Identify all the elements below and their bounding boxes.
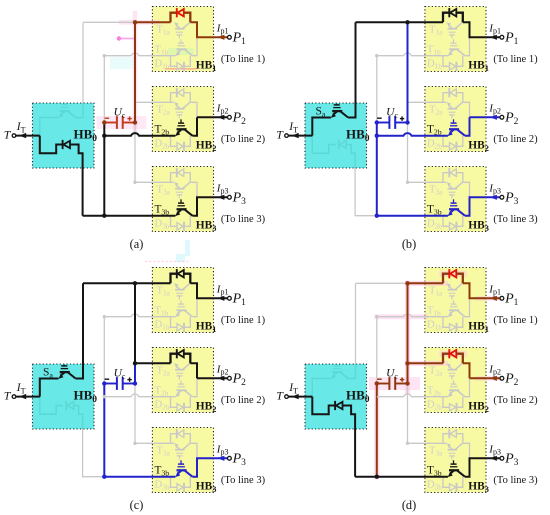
svg-text:Ip1: Ip1 — [488, 22, 501, 35]
arrow Ip1 — [490, 35, 497, 40]
wire mid rail to T2b — [104, 133, 175, 136]
highlight halo — [133, 13, 138, 132]
wire HB2 exit — [197, 116, 227, 118]
svg-text:(To line 2): (To line 2) — [221, 395, 266, 406]
label minus sign — [105, 117, 110, 119]
arrow Ip1 — [218, 35, 225, 40]
wire HB1 to exit — [463, 283, 500, 298]
wire HB0 diode branch — [312, 397, 335, 415]
transistor T2a (ghost) — [174, 102, 178, 107]
wire T3b to exit step — [465, 197, 500, 215]
node junction — [102, 214, 106, 218]
svg-text:P2: P2 — [232, 111, 247, 127]
terminal P3 — [500, 456, 504, 460]
diode D3a ghost arch — [443, 173, 449, 183]
highlight halo — [478, 296, 501, 301]
wire ghost upper rail to node A — [356, 282, 408, 284]
node junction — [133, 361, 137, 365]
terminal P3 — [228, 456, 232, 460]
wire ghost HB0 bottom to rail — [83, 429, 105, 477]
diode D2a arch (active) — [171, 354, 177, 364]
HB3 module box (b) — [425, 167, 486, 232]
svg-text:(To line 2): (To line 2) — [221, 134, 266, 145]
arrow IT direction — [292, 394, 299, 399]
svg-text:(To line 3): (To line 3) — [493, 214, 538, 225]
wire ghost Sa to HB0 top — [348, 364, 355, 379]
svg-text:T: T — [4, 128, 12, 142]
wire ghost T3a line in HB3 — [152, 181, 174, 183]
diode D2b ghost arch — [171, 397, 178, 408]
arrow Ip1 — [490, 296, 497, 301]
svg-text:P3: P3 — [504, 191, 519, 207]
highlight halo — [405, 283, 410, 392]
svg-text:(To line 1): (To line 1) — [221, 315, 266, 326]
wire ghost HB2 top to exit step — [463, 102, 470, 117]
svg-text:P2: P2 — [504, 111, 519, 127]
wire HB2 arch to exit — [463, 363, 470, 378]
arrow Ip3 — [218, 195, 225, 200]
svg-text:Ip3: Ip3 — [216, 182, 229, 195]
svg-text:Ip3: Ip3 — [488, 443, 501, 456]
svg-text:P3: P3 — [232, 191, 247, 207]
node junction — [375, 134, 379, 138]
wire C+ column segment — [407, 283, 409, 383]
diode D2a ghost arch — [171, 93, 177, 103]
transistor T2b (ghost) — [175, 392, 180, 397]
node junction — [405, 281, 409, 285]
terminal T — [12, 395, 16, 399]
diode D1b ghost arch — [443, 56, 450, 67]
arrow Ip2 — [218, 115, 225, 120]
svg-text:(To line 1): (To line 1) — [493, 315, 538, 326]
transistor T1a (ghost) — [447, 22, 451, 27]
transistor T1a (ghost) — [447, 283, 451, 288]
capacitor Uc — [377, 116, 408, 129]
svg-text:P3: P3 — [504, 452, 519, 468]
node junction — [405, 120, 409, 124]
transistor T1b (ghost) — [448, 312, 453, 317]
transistor T3b — [175, 472, 180, 477]
HB0 module box (b) — [305, 103, 367, 168]
node junction — [405, 361, 409, 365]
diode D1b ghost arch — [443, 317, 450, 328]
highlight halo — [478, 376, 501, 381]
svg-text:(To line 2): (To line 2) — [493, 134, 538, 145]
transistor T2b — [175, 131, 180, 136]
terminal P1 — [500, 296, 504, 300]
capacitor Uc — [377, 377, 408, 390]
svg-text:P2: P2 — [232, 372, 247, 388]
wire HB2 arch to exit — [190, 363, 197, 378]
wire ghost T2b to exit step — [465, 378, 470, 396]
wire HB0 diode to bottom exit — [70, 145, 83, 216]
wire ghost T1b to exit step — [192, 298, 197, 316]
wire ghost C- column upper segment — [103, 56, 105, 123]
svg-text:Ip1: Ip1 — [216, 283, 229, 296]
svg-text:(d): (d) — [402, 498, 416, 512]
terminal P2 — [500, 115, 504, 119]
arrow Ip3 — [490, 195, 497, 200]
svg-text:T: T — [4, 389, 12, 403]
label plus sign — [127, 377, 131, 381]
diode D1b ghost arch — [171, 317, 178, 328]
wire T3b to exit step — [465, 458, 500, 476]
capacitor Uc — [104, 116, 135, 129]
wire C- column — [376, 123, 378, 216]
svg-text:Uc: Uc — [386, 368, 398, 381]
wire ghost T1b feed rail — [104, 53, 175, 56]
wire HB2 exit — [470, 377, 500, 379]
wire ghost T1b feed rail — [377, 314, 448, 317]
wire ghost T1b to exit step — [465, 37, 470, 55]
svg-text:P1: P1 — [232, 31, 247, 47]
capacitor Uc — [104, 377, 135, 390]
wire mid rail to T2b — [377, 133, 448, 136]
terminal P2 — [500, 376, 504, 380]
svg-text:IT: IT — [288, 121, 298, 134]
diode D0 (ghost) — [339, 140, 346, 149]
svg-text:P2: P2 — [504, 372, 519, 388]
wire bottom rail to T3b — [377, 215, 448, 217]
node ghost junction at C- column top — [103, 54, 106, 57]
svg-text:Ip3: Ip3 — [216, 443, 229, 456]
wire ghost C- column upper segment — [376, 317, 378, 384]
HB2 module box (b) — [425, 87, 486, 152]
terminal P3 — [500, 195, 504, 199]
svg-text:(a): (a) — [130, 237, 144, 251]
wire bottom rail to T3b — [104, 476, 175, 478]
wire ghost T2b to exit step — [192, 378, 197, 396]
node ghost junction HB3 feed corner — [133, 442, 136, 445]
node junction — [102, 381, 106, 385]
transistor T1a (ghost) — [174, 283, 178, 288]
svg-text:Ip2: Ip2 — [216, 102, 229, 115]
diode D1a arch (active) — [171, 274, 177, 284]
diode D2a arch (active) — [443, 354, 449, 364]
svg-text:Ip2: Ip2 — [488, 363, 501, 376]
label plus sign — [400, 377, 404, 381]
diode D3b ghost arch — [171, 477, 178, 488]
highlight halo — [145, 261, 190, 263]
svg-text:Ip1: Ip1 — [216, 22, 229, 35]
diode D1a arch (active) — [171, 13, 177, 23]
wire ghost T1b feed rail — [104, 314, 175, 317]
svg-text:(To line 2): (To line 2) — [493, 395, 538, 406]
wire T input — [288, 396, 312, 398]
node junction — [375, 120, 379, 124]
highlight halo — [119, 38, 134, 40]
wire top rail into HB1 — [408, 21, 444, 23]
wire ghost diode branch in HB0 — [312, 136, 335, 154]
wire T2b to exit step — [465, 117, 470, 135]
terminal T — [12, 134, 16, 138]
wire HB0 diode branch — [40, 136, 63, 154]
highlight halo — [176, 254, 185, 262]
wire ghost T1b to exit step — [192, 37, 197, 55]
node junction — [102, 134, 106, 138]
wire Sa to HB0 top exit — [348, 22, 355, 117]
diode D1a arch (active) — [443, 274, 449, 284]
svg-text:Uc: Uc — [114, 368, 126, 381]
wire T3b to exit step — [192, 458, 227, 476]
terminal P1 — [500, 35, 504, 39]
svg-text:(To line 3): (To line 3) — [221, 214, 266, 225]
wire bottom rail to T3b — [104, 215, 175, 217]
diode D2a ghost arch — [443, 93, 449, 103]
terminal T — [285, 395, 289, 399]
arrow Ip3 — [490, 456, 497, 461]
highlight halo — [443, 351, 464, 357]
arrow IT direction — [19, 133, 26, 138]
node junction — [133, 381, 137, 385]
wire ghost T3a line in HB3 — [425, 442, 447, 444]
wire HB1 to exit — [190, 22, 227, 37]
wire ghost HB2 top feed — [408, 101, 425, 103]
diode D1a arch (active) — [443, 13, 449, 23]
wire ghost diode branch to HB0 bottom — [346, 145, 355, 169]
highlight halo — [168, 48, 194, 55]
arrow IT direction — [19, 394, 26, 399]
node ghost junction HB3 feed corner — [406, 442, 409, 445]
node junction — [375, 381, 379, 385]
wire HB1 to exit — [190, 283, 227, 298]
transistor T2a (ghost) — [447, 102, 451, 107]
node junction — [133, 281, 137, 285]
diode D3b ghost arch — [443, 216, 450, 227]
wire ghost HB0 bottom to rail — [355, 168, 377, 216]
transistor T1b (ghost) — [175, 312, 180, 317]
wire bottom rail to T3b — [377, 476, 448, 478]
highlight halo — [103, 116, 140, 129]
node junction — [375, 475, 379, 479]
svg-text:T: T — [276, 389, 284, 403]
wire ghost Sa branch in HB0 — [40, 118, 59, 136]
node ghost junction at C- column top — [103, 315, 106, 318]
HB3 module box (a) — [152, 167, 213, 232]
diode D3a ghost arch — [171, 173, 177, 183]
wire top rail from HB0 — [356, 21, 408, 23]
label minus sign — [377, 378, 382, 380]
wire ghost HB3 top to exit step — [463, 443, 470, 458]
wire ghost HB3 top feed — [135, 384, 152, 444]
wire ghost T1b to exit step — [465, 298, 470, 316]
transistor Sa — [58, 374, 63, 379]
wire T input — [16, 135, 40, 137]
wire C- column — [376, 384, 378, 477]
HB3 module box (d) — [425, 428, 486, 493]
label plus sign — [127, 116, 131, 120]
wire ghost upper rail to node A — [83, 21, 135, 23]
wire ghost Sa branch in HB0 — [312, 379, 331, 397]
svg-text:Ip2: Ip2 — [488, 102, 501, 115]
wire C+ column segment — [134, 283, 136, 363]
HB2 module box (c) — [152, 348, 213, 413]
HB0 module box (d) — [305, 364, 367, 429]
node junction — [133, 120, 137, 124]
svg-text:Uc: Uc — [386, 107, 398, 120]
wire ghost HB0 top to upper rail — [82, 22, 84, 103]
svg-text:IT: IT — [288, 382, 298, 395]
transistor T1b (ghost) — [448, 51, 453, 56]
svg-text:(To line 1): (To line 1) — [493, 54, 538, 65]
node junction — [405, 381, 409, 385]
node junction — [102, 475, 106, 479]
wire ghost HB3 top to exit step — [190, 182, 197, 197]
label plus sign — [400, 116, 404, 120]
highlight halo — [408, 361, 446, 366]
wire T2b to exit step — [192, 117, 197, 135]
wire ghost T2a line in HB2 — [425, 101, 447, 103]
wire ghost T3a line in HB3 — [152, 442, 174, 444]
wire ghost HB0 top to upper rail — [355, 283, 357, 364]
wire ghost T2a line in HB2 — [152, 101, 174, 103]
node ghost junction at C- column top — [375, 54, 378, 57]
arrow IT direction — [292, 133, 299, 138]
wire HB2 top feed (active) — [135, 362, 171, 364]
diode D0 (ghost) — [66, 401, 73, 410]
wire HB1 to exit — [463, 22, 500, 37]
node junction — [375, 214, 379, 218]
highlight halo — [165, 68, 196, 70]
svg-text:P1: P1 — [232, 292, 247, 308]
highlight halo — [185, 240, 190, 256]
label minus sign — [105, 378, 110, 380]
wire ghost C- column upper segment — [103, 317, 105, 384]
wire ghost HB2 top feed — [135, 101, 152, 103]
wire C+ column segment — [134, 22, 136, 122]
terminal P1 — [228, 296, 232, 300]
diode D2b ghost arch — [171, 136, 178, 147]
highlight halo — [117, 36, 121, 40]
wire top rail from HB0 — [83, 282, 135, 284]
wire HB0 diode to bottom exit — [343, 406, 356, 477]
terminal P3 — [228, 195, 232, 199]
transistor T2b — [448, 131, 453, 136]
transistor T1a (ghost) — [174, 22, 178, 27]
svg-text:P1: P1 — [504, 292, 519, 308]
highlight halo — [374, 384, 379, 477]
highlight halo — [376, 377, 414, 390]
HB1 module box (a) — [152, 7, 213, 72]
wire HB0 switch branch — [312, 118, 331, 136]
wire ghost T3a line in HB3 — [425, 181, 447, 183]
transistor T3a (ghost) — [447, 182, 451, 187]
transistor T3a (ghost) — [174, 443, 178, 448]
highlight halo — [121, 20, 158, 25]
node ghost junction at C- column top — [375, 315, 378, 318]
wire ghost Sa to HB0 top — [76, 103, 83, 118]
HB1 module box (b) — [425, 7, 486, 72]
wire ghost C- column upper segment — [376, 56, 378, 123]
node junction — [103, 395, 106, 398]
wire top rail into HB1 — [135, 21, 171, 23]
transistor T3b — [448, 472, 453, 477]
wire top rail into HB1 — [135, 282, 171, 284]
transistor T2b (ghost) — [448, 392, 453, 397]
terminal P1 — [228, 35, 232, 39]
wire C+ column segment — [407, 22, 409, 122]
wire HB2 exit — [197, 377, 227, 379]
HB3 module box (c) — [152, 428, 213, 493]
diode D2b ghost arch — [443, 136, 450, 147]
terminal T — [285, 134, 289, 138]
svg-text:T: T — [276, 128, 284, 142]
wire ghost diode branch to HB0 bottom — [74, 406, 83, 430]
node junction — [405, 20, 409, 24]
arrow Ip3 — [218, 456, 225, 461]
svg-text:(To line 3): (To line 3) — [493, 475, 538, 486]
wire HB2 exit — [470, 116, 500, 118]
wire top rail into HB1 — [408, 282, 444, 284]
svg-text:(b): (b) — [402, 237, 416, 251]
HB0 module box (a) — [33, 103, 95, 168]
highlight halo — [110, 57, 134, 69]
svg-text:Ip1: Ip1 — [488, 283, 501, 296]
highlight halo — [408, 281, 446, 286]
wire mid rail to T2b — [104, 394, 175, 397]
svg-text:(To line 1): (To line 1) — [221, 54, 266, 65]
svg-text:IT: IT — [16, 121, 26, 134]
diode D3b ghost arch — [171, 216, 178, 227]
transistor T3b — [175, 211, 180, 216]
diode D0 — [63, 140, 70, 149]
node ghost junction HB3 feed corner — [133, 181, 136, 184]
wire ghost HB3 top to exit step — [463, 182, 470, 197]
arrow Ip2 — [490, 115, 497, 120]
svg-text:(To line 3): (To line 3) — [221, 475, 266, 486]
wire HB2 top feed (active) — [408, 362, 444, 364]
transistor Sa (ghost) — [58, 113, 63, 118]
transistor T2a (ghost) — [174, 363, 178, 368]
svg-text:Ip2: Ip2 — [216, 363, 229, 376]
node junction — [102, 120, 106, 124]
wire ghost HB2 top to exit step — [190, 102, 197, 117]
HB1 module box (d) — [425, 268, 486, 333]
wire C- column — [103, 123, 105, 216]
diode D0 — [335, 401, 342, 410]
transistor T3b — [448, 211, 453, 216]
label minus sign — [377, 117, 382, 119]
svg-text:P1: P1 — [504, 31, 519, 47]
terminal P2 — [228, 115, 232, 119]
wire T input — [16, 396, 40, 398]
arrow Ip1 — [218, 296, 225, 301]
diode D3a ghost arch — [171, 434, 177, 444]
arrow Ip2 — [218, 376, 225, 381]
wire ghost HB3 top feed — [408, 123, 425, 183]
arrow Ip2 — [490, 376, 497, 381]
wire Sa to HB0 top exit — [76, 283, 83, 378]
diode D1b ghost arch — [171, 56, 178, 67]
wire bottom rail left segment — [355, 476, 377, 478]
diode D3b ghost arch — [443, 477, 450, 488]
svg-text:Ip3: Ip3 — [488, 182, 501, 195]
HB1 module box (c) — [152, 268, 213, 333]
diode D3a ghost arch — [443, 434, 449, 444]
transistor T3a (ghost) — [174, 182, 178, 187]
svg-text:P3: P3 — [232, 452, 247, 468]
node junction — [133, 20, 137, 24]
HB0 module box (c) — [33, 364, 95, 429]
transistor Sa (ghost) — [331, 374, 336, 379]
wire ghost HB3 top feed — [135, 123, 152, 183]
wire ghost HB3 top feed — [408, 384, 425, 444]
HB2 module box (d) — [425, 348, 486, 413]
svg-text:IT: IT — [16, 382, 26, 395]
transistor T2a (ghost) — [447, 363, 451, 368]
wire ghost T1b feed rail — [377, 53, 448, 56]
diode D2b ghost arch — [443, 397, 450, 408]
